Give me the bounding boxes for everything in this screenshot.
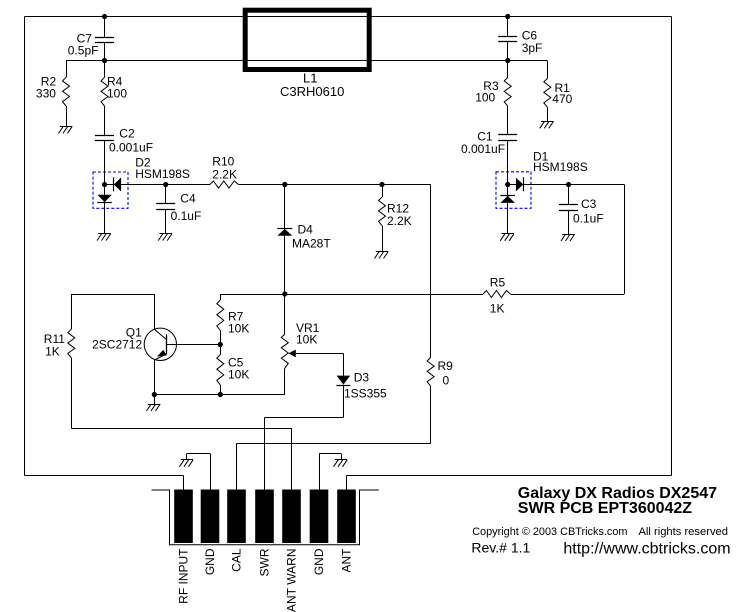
diode D2 (HSM198S dual): [97, 156, 190, 234]
junction D4 top: [282, 182, 287, 187]
svg-text:1K: 1K: [45, 345, 60, 359]
ground R1: [540, 121, 554, 128]
resistor R2: [36, 61, 70, 127]
svg-text:R10: R10: [212, 155, 234, 169]
svg-text:All rights reserved: All rights reserved: [638, 526, 728, 538]
svg-text:C2: C2: [119, 127, 135, 141]
resistor R11: [44, 294, 75, 428]
diode D1 (HSM198S dual): [500, 150, 587, 234]
svg-text:Copyright © 2003 CBTricks.com: Copyright © 2003 CBTricks.com: [472, 526, 627, 538]
resistor R10: [210, 155, 239, 189]
svg-text:HSM198S: HSM198S: [533, 160, 588, 174]
wire emitter rail: [154, 394, 220, 396]
svg-text:10K: 10K: [228, 368, 249, 382]
connector body: [152, 490, 379, 545]
svg-text:470: 470: [552, 92, 572, 106]
capacitor C6: [498, 17, 542, 61]
svg-text:1K: 1K: [490, 302, 505, 316]
wire R5 line: [220, 294, 624, 296]
wire right border: [671, 17, 673, 476]
svg-text:0.001uF: 0.001uF: [461, 142, 505, 156]
wire border to ANT pin: [346, 476, 348, 490]
wire GND pin6 to ground: [319, 454, 342, 490]
resistor R5: [483, 276, 511, 316]
junction D1 node: [505, 182, 510, 187]
ground connector right: [334, 460, 348, 467]
capacitor C2: [95, 127, 153, 185]
svg-text:C3RH0610: C3RH0610: [280, 84, 344, 99]
resistor C5 (labelled C5 10K): [217, 345, 250, 395]
ground D1: [500, 234, 514, 241]
wire border to RF INPUT pin: [183, 476, 185, 490]
wire D2 to C4: [121, 184, 166, 186]
connector pins: [174, 490, 356, 544]
connector pin labels: [177, 548, 354, 612]
svg-text:GND: GND: [203, 548, 217, 575]
resistor R4: [101, 61, 127, 136]
wire right corner down: [624, 185, 626, 295]
svg-text:http://www.cbtricks.com: http://www.cbtricks.com: [563, 541, 730, 558]
svg-text:RF INPUT: RF INPUT: [177, 548, 191, 604]
svg-text:Rev.# 1.1: Rev.# 1.1: [471, 540, 530, 556]
junction C3 node: [566, 182, 571, 187]
svg-text:1SS355: 1SS355: [344, 387, 387, 401]
junction C7 bottom: [102, 58, 107, 63]
svg-text:100: 100: [475, 91, 495, 105]
wire top border / main RF line: [25, 16, 672, 18]
junction VR1 top: [282, 291, 287, 296]
svg-text:330: 330: [36, 86, 56, 100]
wire bottom border left segment: [25, 475, 184, 477]
inductor L1 (pickup box): [245, 10, 369, 99]
potentiometer VR1: [281, 294, 343, 395]
svg-text:GND: GND: [312, 548, 326, 575]
resistor R9: [427, 185, 453, 444]
svg-text:D4: D4: [298, 223, 314, 237]
junction C7 top: [102, 14, 107, 19]
transistor Q1 (2SC2712): [92, 294, 220, 395]
svg-text:C4: C4: [180, 192, 196, 206]
svg-text:R5: R5: [490, 276, 506, 290]
resistor R3: [475, 61, 511, 135]
svg-text:0: 0: [443, 374, 450, 388]
svg-text:C3: C3: [581, 197, 597, 211]
diode D4 (MA28T): [277, 185, 331, 295]
junction R12 top: [379, 182, 384, 187]
svg-text:CAL: CAL: [230, 548, 244, 572]
svg-text:10K: 10K: [228, 322, 249, 336]
wire GND pin2 to ground: [187, 454, 211, 490]
wire R11 to ANT WARN pin: [71, 428, 291, 490]
ground D2: [97, 234, 111, 241]
wire D3 to SWR pin: [265, 418, 344, 490]
capacitor C1: [461, 130, 517, 185]
svg-text:0.001uF: 0.001uF: [109, 140, 153, 154]
resistor R1: [544, 61, 573, 122]
diode D3 (1SS355): [336, 353, 387, 417]
svg-text:0.5pF: 0.5pF: [68, 43, 99, 57]
resistor R12: [379, 185, 412, 252]
svg-text:2.2K: 2.2K: [212, 168, 237, 182]
svg-text:SWR PCB EPT360042Z: SWR PCB EPT360042Z: [518, 500, 693, 517]
wire R10 to R9 corner: [239, 184, 431, 186]
svg-text:MA28T: MA28T: [292, 237, 331, 251]
junction Q1 emitter: [152, 392, 157, 397]
svg-text:D3: D3: [354, 370, 370, 384]
svg-text:0.1uF: 0.1uF: [573, 212, 604, 226]
junction C6 top: [505, 14, 510, 19]
wire bottom border right segment: [347, 475, 672, 477]
svg-text:2.2K: 2.2K: [387, 214, 412, 228]
ground Q1: [147, 395, 161, 412]
diode D2 package box: [93, 172, 128, 208]
ground R12: [375, 252, 389, 259]
junction D2 node: [102, 182, 107, 187]
svg-text:SWR: SWR: [258, 548, 272, 576]
capacitor C4: [156, 185, 201, 234]
wire VR1 bottom to rail: [220, 394, 284, 396]
ground R2: [59, 126, 73, 133]
wire C3 to right corner: [569, 184, 625, 186]
diode D1 package box: [496, 172, 531, 209]
svg-text:ANT: ANT: [340, 548, 354, 573]
wire R9 to CAL pin: [237, 444, 431, 490]
svg-text:ANT WARN: ANT WARN: [285, 549, 299, 612]
ground connector left: [179, 460, 193, 467]
ground C4: [158, 234, 172, 241]
junction C6 bottom: [505, 58, 510, 63]
capacitor C7: [68, 17, 114, 61]
junction C4 node: [163, 182, 168, 187]
svg-text:3pF: 3pF: [522, 41, 543, 55]
wire C4 to R10: [166, 184, 210, 186]
wire R11 to Q1 collector: [71, 294, 154, 296]
svg-text:HSM198S: HSM198S: [135, 167, 190, 181]
svg-text:2SC2712: 2SC2712: [92, 338, 142, 352]
junction C5 bottom: [218, 392, 223, 397]
svg-text:0.1uF: 0.1uF: [171, 209, 202, 223]
ground C3: [561, 234, 575, 241]
wire left border: [24, 17, 26, 476]
svg-text:R9: R9: [438, 359, 454, 373]
wire sampling line y61: [66, 60, 547, 62]
junction Q1 base node: [218, 342, 223, 347]
svg-text:100: 100: [107, 86, 127, 100]
title text: [471, 485, 730, 558]
capacitor C3: [559, 185, 604, 235]
svg-text:10K: 10K: [296, 333, 317, 347]
resistor R7: [217, 294, 250, 345]
